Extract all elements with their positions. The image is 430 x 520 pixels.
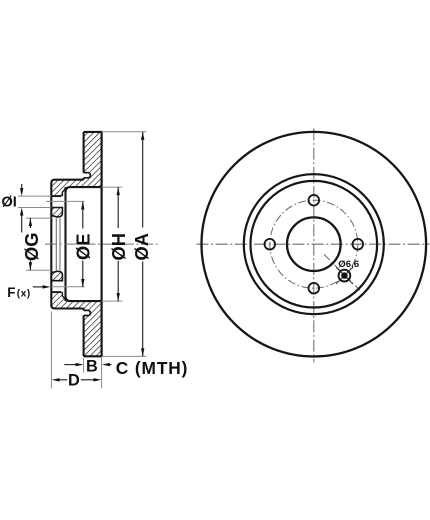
rim left edge lower	[83, 316, 85, 357]
small hole 6.6 filled	[341, 272, 347, 278]
bolt hole top	[309, 195, 320, 206]
svg-text:(x): (x)	[17, 288, 31, 299]
extension line A top	[102, 131, 147, 133]
small hole cross marks	[336, 267, 353, 284]
svg-text:C (MTH): C (MTH)	[116, 358, 189, 378]
hat outer circle	[250, 181, 377, 308]
rim bottom edge	[84, 355, 102, 357]
leader arrow F(x)	[33, 286, 43, 288]
svg-text:ØG: ØG	[21, 233, 42, 261]
dimension line diameter I	[21, 184, 23, 233]
dimension line diameter H	[117, 187, 119, 301]
front view horizontal centreline	[197, 243, 430, 245]
bolt hole upper edge line	[51, 195, 61, 197]
extension line G top	[26, 217, 51, 219]
svg-text:D: D	[68, 371, 80, 389]
extension line rim left bottom	[83, 358, 85, 373]
cross-section centreline	[45, 243, 158, 245]
dimension D arrow right	[81, 379, 94, 381]
rim left edge stub above flange	[83, 178, 85, 180]
rim left edge stub below flange	[83, 309, 85, 311]
extension line A bottom	[102, 355, 147, 357]
hat face block between bolt hole and bore (lower)	[51, 271, 62, 280]
disc rim upper cross-section hatched region	[51, 132, 101, 196]
friction band inner circle	[244, 174, 384, 314]
extension line I top	[18, 195, 51, 197]
extension line H top	[102, 186, 123, 188]
svg-text:ØE: ØE	[72, 234, 93, 260]
drum interior top surface	[66, 187, 102, 192]
hat inner wall	[64, 187, 66, 301]
rim left edge upper	[83, 132, 85, 173]
small hole 6.6 outline	[339, 270, 351, 282]
extension line E bottom (hole centre)	[51, 286, 84, 288]
bolt hole lower edge line (bottom hole)	[51, 291, 61, 293]
extension line rim right bottom	[101, 358, 103, 389]
bolt circle (dash-dot)	[270, 200, 358, 288]
drum interior bottom surface	[66, 296, 102, 301]
front view vertical centreline	[313, 128, 315, 362]
extension line hat face bottom	[50, 312, 52, 389]
bolt hole right	[353, 239, 364, 250]
extension line E top (hole centre)	[46, 200, 85, 202]
bolt hole left	[265, 239, 276, 250]
centre bore circle	[287, 217, 341, 271]
hat mounting face (left edge)	[50, 183, 52, 305]
dimension D arrow left	[59, 379, 67, 381]
rim outboard face (right edge)	[100, 131, 102, 357]
lower undercut notch	[84, 310, 91, 315]
svg-text:ØI: ØI	[2, 194, 17, 210]
dimension B arrow left	[64, 364, 76, 366]
svg-text:ØH: ØH	[108, 233, 129, 260]
extension line H bottom	[102, 300, 123, 302]
bore silhouette lines	[56, 218, 60, 270]
hat flange top surface	[51, 180, 83, 184]
bolt hole bottom	[309, 283, 320, 294]
leader arrow C	[110, 364, 112, 366]
svg-text:ØA: ØA	[131, 233, 152, 260]
disc rim lower cross-section hatched region	[51, 292, 101, 356]
rim top edge	[84, 131, 102, 133]
svg-text:Ø6,6: Ø6,6	[338, 259, 359, 270]
hat face block between bolt hole and bore (upper)	[51, 208, 62, 217]
extension line I bottom	[18, 207, 51, 209]
upper undercut notch	[84, 173, 91, 178]
hat wall slant upper	[62, 187, 67, 196]
extension line G bottom	[26, 269, 51, 271]
dimension line diameter E	[82, 202, 84, 288]
radial centreline to small hole	[324, 254, 360, 290]
outer circle	[201, 132, 426, 357]
dimension line diameter A	[142, 132, 144, 357]
hat flange bottom surface	[51, 305, 83, 309]
svg-text:F: F	[7, 285, 15, 300]
svg-text:B: B	[86, 358, 98, 376]
dimension line diameter G	[29, 218, 31, 270]
hat wall slant lower	[62, 292, 67, 301]
